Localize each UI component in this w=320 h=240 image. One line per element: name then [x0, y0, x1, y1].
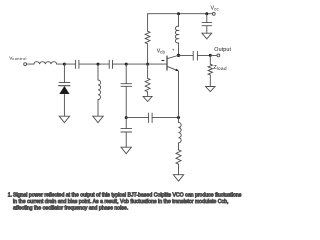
- node varactor junction: [63, 63, 66, 66]
- svg-text:Signal power reflected at the: Signal power reflected at the output of …: [13, 193, 242, 199]
- inductor tank: [98, 80, 101, 100]
- wire node to output terminal: [210, 54, 217, 56]
- svg-text:+: +: [172, 48, 175, 53]
- varactor D1 cathode bars: [59, 82, 70, 84]
- wire output node to Zload: [209, 55, 211, 64]
- wire cap to emitter node: [152, 117, 178, 119]
- capacitor series C-b: [108, 60, 110, 68]
- svg-text:Vcb: Vcb: [157, 49, 166, 55]
- transistor Q1 collector lead: [167, 56, 178, 59]
- inductor emitter: [179, 122, 182, 142]
- capacitor feedback series: [148, 113, 150, 122]
- wire cap to ground: [206, 26, 208, 33]
- varactor D1 anode triangle: [59, 86, 69, 94]
- wire inductor to collector node: [178, 43, 180, 56]
- wire varactor to ground: [63, 94, 65, 116]
- capacitor output coupling: [192, 51, 194, 60]
- wire varactor drop: [63, 64, 65, 82]
- ground G6: [173, 175, 183, 181]
- Output terminal circle: [217, 54, 220, 57]
- wire cap to output node: [197, 54, 210, 56]
- node rail-inductor junction: [177, 12, 180, 15]
- wire Zload to ground: [209, 75, 211, 87]
- wire C2 to ground: [125, 132, 127, 147]
- node collector junction: [177, 54, 180, 57]
- capacitor series C-a: [75, 60, 77, 68]
- wire cap to base: [113, 63, 168, 65]
- wire inductor to varactor node: [57, 63, 65, 65]
- resistor R-bias-upper: [145, 31, 150, 44]
- resistor emitter: [176, 150, 181, 164]
- wire resistor to base node: [147, 44, 149, 64]
- transistor Q1 base bar: [166, 56, 168, 70]
- svg-text:affecting the oscillator frequ: affecting the oscillator frequency and p…: [13, 206, 128, 212]
- ground G2: [59, 116, 69, 122]
- wire left bias drop from rail: [147, 14, 149, 32]
- wire Vcc bypass drop: [206, 14, 208, 23]
- transistor Q1 emitter lead: [167, 66, 178, 70]
- capacitor C2 divider lower: [121, 127, 132, 129]
- ground G3: [93, 116, 103, 122]
- wire inductor to ground: [97, 100, 99, 117]
- svg-text:1.: 1.: [8, 193, 12, 199]
- ground G4: [143, 96, 152, 101]
- node tank junction: [97, 63, 100, 66]
- svg-text:Zload: Zload: [213, 65, 227, 71]
- wire cap to tank node: [79, 63, 109, 65]
- transistor Q1 emitter arrow: [175, 69, 178, 72]
- svg-text:Vcontrol: Vcontrol: [9, 55, 27, 61]
- wire emitter drop: [178, 71, 180, 122]
- node rail-bypass junction: [205, 12, 208, 15]
- Vcontrol terminal circle: [24, 63, 27, 66]
- node divider junction: [125, 63, 128, 66]
- node emitter junction: [177, 116, 180, 119]
- Vcc terminal circle: [212, 13, 215, 16]
- ground G7: [206, 87, 216, 92]
- wire Vcc rail: [148, 13, 213, 15]
- wire varactor node to series cap: [64, 63, 75, 65]
- resistor Zload: [208, 64, 212, 75]
- inductor collector feed: [175, 26, 178, 43]
- wire node to C2: [125, 118, 127, 129]
- capacitor bypass at Vcc: [202, 22, 211, 24]
- svg-text:Output: Output: [214, 47, 231, 53]
- wire rail to collector inductor: [178, 14, 180, 27]
- label minus sign: [162, 60, 164, 62]
- wire divider drop: [125, 64, 127, 84]
- wire inductor to resistor: [178, 143, 180, 150]
- wire C1 to feedback node: [125, 86, 127, 117]
- wire resistor to ground: [147, 92, 149, 97]
- wire collector to output cap: [179, 54, 194, 56]
- svg-text:Vcc: Vcc: [211, 6, 220, 12]
- node output junction: [209, 54, 212, 57]
- svg-text:in the current drain and bias: in the current drain and bias point. As …: [13, 199, 228, 205]
- ground G5: [121, 147, 131, 153]
- resistor R-bias-lower: [145, 78, 150, 91]
- ground G1: [202, 33, 212, 39]
- wire tank inductor drop: [97, 64, 99, 80]
- node feedback junction: [125, 116, 128, 119]
- capacitor C1 divider upper: [121, 83, 132, 85]
- inductor input choke: [34, 62, 57, 64]
- wire feedback node to cap: [126, 117, 148, 119]
- wire base node to lower resistor: [147, 64, 149, 78]
- wire Vcontrol to inductor: [27, 63, 34, 65]
- wire resistor to ground: [178, 164, 180, 175]
- node base bias junction: [146, 63, 149, 66]
